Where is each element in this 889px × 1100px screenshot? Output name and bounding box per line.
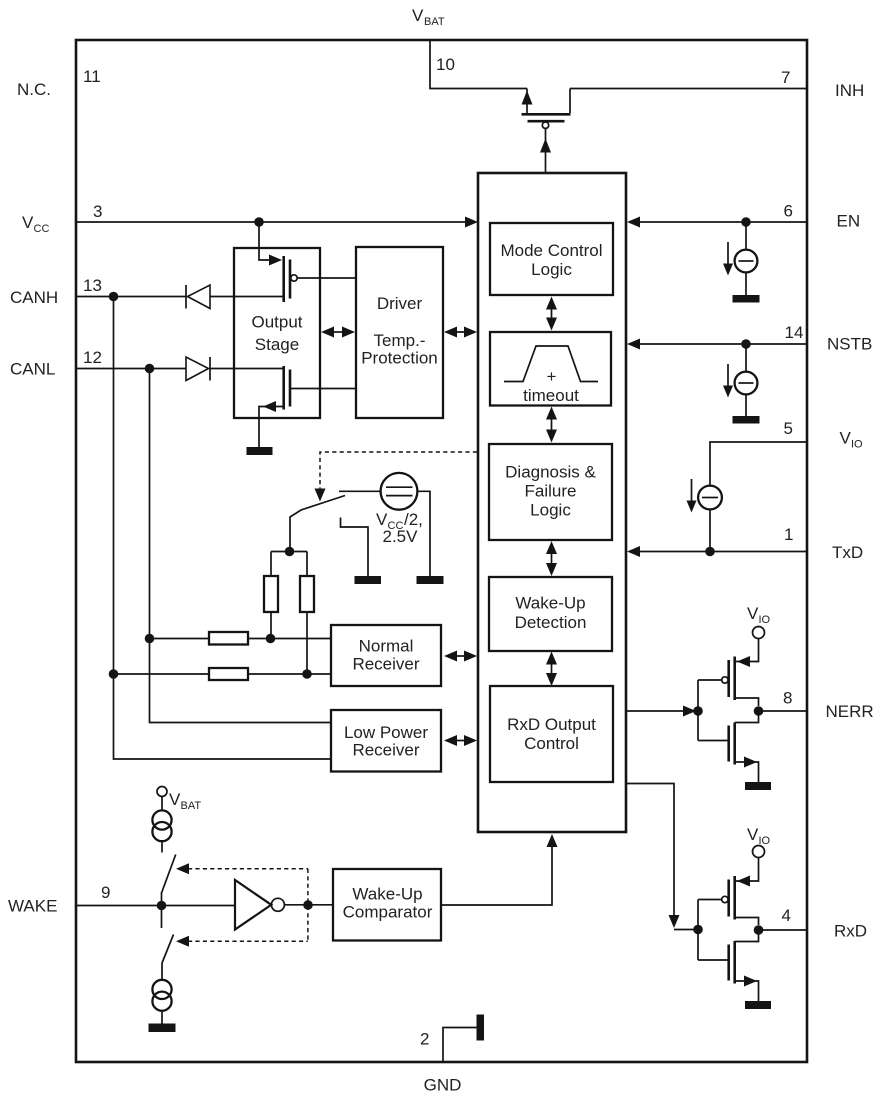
wire CANH left segment [77,296,186,298]
svg-text:IO: IO [851,439,863,451]
current source I3 on VIO [698,486,722,552]
svg-text:Wake-Up: Wake-Up [352,885,422,904]
junction dot VCC node [254,217,264,227]
switch S2 lever upper [162,855,176,893]
transistor Q4 NMOS NERR [729,711,759,782]
double arrow normal receiver to control unit [444,651,477,662]
svg-text:V: V [22,213,34,232]
double arrow driver to control unit [444,327,477,338]
arrowhead NERR drive [683,706,696,717]
svg-text:TxD: TxD [832,543,863,562]
resistor R4 horizontal [209,668,248,680]
arrowhead at Q5 source [737,876,750,887]
resistor R1 vertical [264,576,278,612]
wire CANL vertical rail [150,369,332,723]
arrow symbol at I3 [687,479,697,513]
svg-text:WAKE: WAKE [8,897,57,916]
svg-text:RxD Output: RxD Output [507,715,596,734]
wire M1 gate to control unit [540,128,551,172]
wire CANL diode to output stage [210,368,283,370]
svg-text:10: 10 [436,55,455,74]
wire GND pin 2 [443,1028,477,1062]
junction dot CANL tap [145,634,155,644]
svg-text:BAT: BAT [181,800,202,812]
svg-text:V: V [412,6,424,25]
svg-text:12: 12 [83,348,102,367]
transistor Q5 PMOS RxD [722,876,759,925]
output stage label [251,313,302,355]
svg-text:14: 14 [785,323,804,342]
wire VIO to Q5 source [736,858,759,882]
timeout waveform trapezoid [504,346,598,382]
resistor R3 horizontal [209,632,248,645]
current source I1 on EN [735,222,758,295]
svg-text:Control: Control [524,734,579,753]
svg-text:Failure: Failure [525,482,577,501]
mode control logic label [500,241,602,279]
svg-text:IO: IO [759,614,771,626]
wire NERR gate rail [698,680,729,741]
svg-text:Stage: Stage [255,335,299,354]
transistor Q1 high-side in output stage [284,256,297,302]
junction dot NERR gate node [693,706,703,716]
double arrow wakeup detection to rxd control [546,652,557,687]
double arrow mode control to timeout [546,297,557,331]
wire EN [639,221,806,223]
svg-text:Logic: Logic [530,501,571,520]
wire R2 bottom to bus [306,612,308,674]
svg-text:13: 13 [83,276,102,295]
svg-text:Comparator: Comparator [343,903,433,922]
svg-text:V: V [747,825,759,844]
junction dot CANH tap [109,669,119,679]
svg-text:V: V [840,429,852,448]
switch S1 lever [290,496,345,552]
chip outline border [76,40,807,1062]
arrowhead VCC into control unit [465,217,478,228]
wire M1 drain to INH pin 7 [570,88,806,90]
arrow symbol at I1 [723,242,733,276]
svg-text:Logic: Logic [531,260,572,279]
driver box label [361,294,438,368]
wire control unit to NERR gate [627,710,684,712]
svg-text:Mode Control: Mode Control [500,241,602,260]
svg-text:4: 4 [782,906,791,925]
junction dot divider node [285,547,295,557]
svg-text:N.C.: N.C. [17,80,51,99]
wire WAKE dot to lower contact [161,906,163,929]
junction dot NERR output [754,706,764,716]
dashed control line to switch S1 [315,452,478,502]
svg-text:GND: GND [424,1076,462,1095]
svg-text:INH: INH [835,81,864,100]
svg-text:Driver: Driver [377,294,423,313]
arrow symbol at I2 [723,364,733,398]
VIO terminal circle NERR [753,627,765,639]
junction dot CANH [109,292,119,302]
ground bar below I5 [149,1024,176,1033]
svg-text:3: 3 [93,202,102,221]
resistor R2 vertical [300,576,314,612]
current source I5 to ground [152,963,171,1024]
transistor M1 INH switch [522,89,571,129]
svg-text:Output: Output [251,313,302,332]
wake-up comparator box U8 [333,869,441,941]
junction dot R2 node [302,669,312,679]
VCC/2 value label [376,510,423,546]
VIO pin label [840,429,864,451]
arrowhead at Q4 source [744,757,757,768]
svg-text:BAT: BAT [424,16,445,28]
arrowhead TxD into control unit [627,546,640,557]
svg-text:Receiver: Receiver [352,741,419,760]
wake-up comparator label [343,885,433,922]
switch S3 lever lower [162,935,174,964]
svg-text:2: 2 [420,1030,429,1049]
transistor Q3 PMOS NERR [722,657,759,707]
VBAT terminal circle wake branch [157,787,167,797]
wake-up detection label [515,594,587,633]
svg-text:RxD: RxD [834,922,867,941]
wire CANL left segment [77,368,186,370]
wire VCC rail [77,221,466,223]
svg-text:+: + [547,367,557,386]
wire WAKE dot to upper lever [161,892,163,906]
diagnosis failure logic box U2 [489,444,612,540]
VCC pin label [22,213,49,235]
svg-text:9: 9 [101,883,110,902]
wire CANH to normal receiver lower [114,673,332,675]
wire CANL to normal receiver upper [150,638,332,640]
VIO terminal circle RxD [753,846,765,858]
wire TxD [639,551,806,553]
svg-text:Temp.-: Temp.- [374,331,426,350]
ground bar below output stage [247,447,273,455]
ground bar below I2 [733,416,760,424]
arrowhead at Q2 source [263,401,276,412]
svg-text:V: V [747,604,759,623]
diode D2 on CANL [186,357,210,381]
dashed control line upper switch [176,863,308,874]
junction dot WAKE [157,901,167,911]
junction dot R1 node [266,634,276,644]
wire inverter output to comparator [284,904,333,906]
svg-text:EN: EN [837,212,861,231]
transistor Q2 low-side in output stage [284,366,290,410]
inverter U7 wake buffer [235,880,284,930]
arrowhead NSTB into control unit [627,339,640,350]
junction dot inverter output [303,900,313,910]
rxd output control label [507,715,596,753]
svg-text:CANL: CANL [10,360,55,379]
svg-text:5: 5 [784,419,793,438]
wire WAKE pin [77,905,235,907]
diode D1 on CANH [186,285,210,309]
output stage box [234,248,320,418]
ground bar below I1 [733,295,760,303]
wire control unit to RxD gate [627,784,698,930]
ground bar below Q6 [745,1001,771,1009]
wire Q2 source to ground [259,407,283,448]
svg-text:1: 1 [784,525,793,544]
wire CANH vertical rail [114,297,332,760]
wire Q1 gate to driver [297,277,356,279]
wire divider node branches [271,552,307,577]
arrowhead into Q1 channel [269,255,282,266]
VIO label at NERR driver [747,604,771,626]
svg-text:11: 11 [83,67,101,86]
svg-text:NSTB: NSTB [827,335,872,354]
wire Q2 gate to driver [290,388,356,390]
arrowhead into control unit bottom [547,834,558,847]
svg-text:V: V [169,790,181,809]
low power receiver label [344,723,428,760]
wire RxD to pin 4 [759,929,807,931]
wire VCC to output stage PMOS [259,222,271,260]
svg-text:timeout: timeout [523,386,579,405]
svg-text:8: 8 [783,689,792,708]
GND die bar [477,1015,485,1041]
junction dot TxD [705,547,715,557]
current source I4 from VBAT [152,797,171,853]
normal receiver label [352,637,419,674]
ground bar right of VCC2 [417,576,444,584]
VBAT label wake branch [169,790,201,812]
junction dot NSTB [741,339,751,349]
wire VIO pin to TxD node [710,442,806,486]
wake-up detection box U3 [489,577,612,651]
svg-text:Protection: Protection [361,349,438,368]
double arrow output stage to driver [321,327,355,338]
wire VIO to Q3 source [736,639,759,662]
switch S1 open contact to ground [341,518,369,577]
voltage source VCC/2 [381,473,418,510]
junction dot RxD gate node [693,925,703,935]
ground bar middle [355,576,382,584]
svg-text:Wake-Up: Wake-Up [515,594,585,613]
svg-text:Low Power: Low Power [344,723,428,742]
net VBAT label (top) [412,6,445,28]
wire R1 bottom to bus [270,612,272,639]
svg-text:2.5V: 2.5V [383,527,419,546]
VIO label at RxD driver [747,825,771,847]
transistor Q6 NMOS RxD [729,930,759,1001]
rxd output control box U4 [490,686,613,782]
timeout block box [490,332,611,406]
mode control logic box U1 [490,223,613,295]
junction dot EN [741,217,751,227]
svg-text:Detection: Detection [515,613,587,632]
arrowhead at Q3 source [737,656,750,667]
double arrow diagnosis to wakeup detection [546,541,557,576]
junction dot CANL [145,364,155,374]
junction dot RxD output [754,925,764,935]
current source I2 on NSTB [735,344,758,416]
wire RxD gate rail [698,900,729,961]
wire VBAT pin10 to M1 source [430,41,527,89]
wire comparator to control unit [441,846,552,905]
double arrow low power receiver to control unit [444,735,477,746]
svg-text:Receiver: Receiver [352,655,419,674]
wire CANH diode to output stage [210,296,283,298]
svg-text:6: 6 [784,202,793,221]
wire VCC2 source to ground [417,491,430,576]
svg-text:CANH: CANH [10,288,58,307]
arrowhead at Q6 source [744,976,757,987]
svg-text:Normal: Normal [359,637,414,656]
svg-text:7: 7 [781,68,790,87]
ground bar below Q4 [745,782,771,790]
arrowhead EN into control unit [627,217,640,228]
wire S1 contact to VCC2 source [339,490,381,492]
low power receiver box U6 [331,710,441,772]
svg-text:Diagnosis &: Diagnosis & [505,463,596,482]
driver temp protection box [356,247,443,418]
diagnosis label [505,463,596,520]
wire NSTB [639,343,806,345]
svg-text:NERR: NERR [826,702,874,721]
arrowhead RxD drive [669,915,680,928]
wire NERR to pin 8 [759,710,807,712]
control unit big box [478,173,626,832]
dashed control line lower switch [176,869,308,947]
normal receiver box U5 [331,625,441,686]
double arrow timeout to diagnosis [546,407,557,443]
svg-text:CC: CC [34,223,50,235]
